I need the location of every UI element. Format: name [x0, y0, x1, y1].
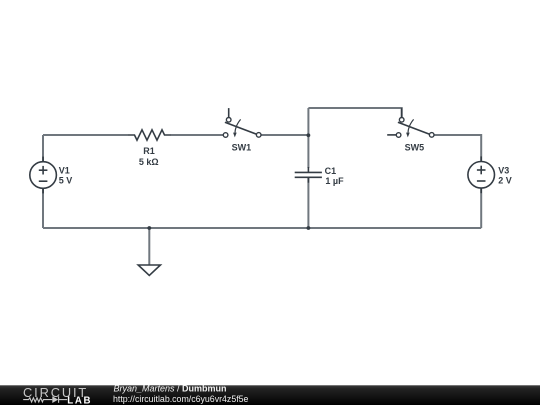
voltage source V1 — [30, 157, 57, 194]
wire V3 bottom stub — [480, 188, 482, 228]
wire V1 top stub — [42, 135, 44, 162]
capacitor C1 — [295, 167, 322, 183]
logo resistor-diode glyph — [23, 396, 67, 403]
wire bottom rail — [43, 227, 481, 229]
svg-text:5 V: 5 V — [59, 176, 73, 186]
svg-text:SW5: SW5 — [405, 143, 425, 153]
wire ground stub — [148, 228, 150, 265]
svg-text:2 V: 2 V — [498, 176, 512, 186]
svg-text:V3: V3 — [498, 166, 509, 176]
svg-text:SW1: SW1 — [232, 143, 252, 153]
voltage source V3 — [468, 156, 495, 193]
wire capacitor branch lower — [307, 177, 309, 228]
node ground junction dot — [147, 226, 151, 230]
wire capacitor branch upper — [307, 108, 309, 168]
switch SW1 — [223, 108, 261, 137]
wire SW1 to node A — [261, 134, 308, 136]
resistor R1 — [128, 130, 171, 140]
ground — [138, 265, 160, 275]
svg-text:C1: C1 — [325, 166, 337, 176]
wire R1 to SW1 — [171, 134, 224, 136]
node B junction dot (capacitor bottom) — [307, 226, 311, 230]
svg-text:http://circuitlab.com/c6yu6vr4: http://circuitlab.com/c6yu6vr4z5f5e — [113, 394, 249, 404]
svg-text:Bryan_Martens / Dumbmun: Bryan_Martens / Dumbmun — [114, 384, 227, 394]
svg-text:LAB: LAB — [67, 395, 90, 405]
svg-text:R1: R1 — [143, 146, 155, 156]
wire top-left horizontal from V1 to R1 — [43, 134, 128, 136]
switch SW5 — [387, 108, 434, 137]
wire V1 bottom stub — [42, 188, 44, 228]
logo diode triangle — [52, 396, 58, 403]
svg-text:V1: V1 — [59, 166, 70, 176]
svg-text:1 µF: 1 µF — [325, 176, 344, 186]
node A junction dot (top) — [307, 133, 311, 137]
svg-text:5 kΩ: 5 kΩ — [139, 157, 159, 167]
wire top rail to SW5 — [308, 108, 401, 118]
wire SW5 to V3 — [434, 135, 481, 162]
